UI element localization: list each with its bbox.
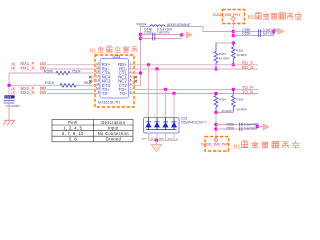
junction dot bbox=[7, 84, 10, 87]
wire bottom power vertical bbox=[215, 113, 217, 138]
resistor R352 bbox=[232, 43, 236, 65]
D23 anode bus bbox=[146, 129, 177, 131]
svg-text:1nF/2000V: 1nF/2000V bbox=[6, 104, 21, 108]
ferrite bead FB34 bbox=[150, 25, 165, 27]
svg-text:Description: Description bbox=[101, 120, 125, 125]
svg-text:R300: R300 bbox=[44, 70, 53, 74]
svg-text:Ground: Ground bbox=[106, 137, 122, 142]
diode D23-a bbox=[146, 118, 151, 130]
junction dots on CT vertical bbox=[139, 33, 142, 36]
junction dot bbox=[256, 125, 259, 128]
no-connect X pin5 bbox=[134, 80, 137, 83]
wire C463 to chassis bbox=[8, 103, 10, 120]
node CT3 bob-smith wire bbox=[9, 84, 100, 86]
U33 pin numbers right bbox=[130, 61, 132, 94]
svg-text:49.9R/F: 49.9R/F bbox=[236, 108, 247, 112]
D23 bottom pin stubs bbox=[149, 133, 175, 140]
svg-text:C559: C559 bbox=[242, 31, 250, 35]
svg-text:R355: R355 bbox=[236, 97, 244, 101]
svg-text:49.9R/F: 49.9R/F bbox=[236, 53, 247, 57]
wire FB to power node bbox=[203, 27, 233, 32]
svg-text:Input: Input bbox=[108, 126, 119, 131]
svg-text:[4]: [4] bbox=[12, 91, 16, 95]
capacitor C559 bbox=[240, 127, 242, 131]
wire MX1_P bbox=[47, 64, 100, 66]
svg-text:R354: R354 bbox=[219, 97, 227, 101]
svg-text:D5V0F4U10LP-7: D5V0F4U10LP-7 bbox=[181, 121, 207, 125]
svg-text:6, 7, 9, 12: 6, 7, 9, 12 bbox=[62, 131, 84, 136]
resistor R319 bbox=[60, 84, 76, 88]
wire D23 pin1 riser bbox=[148, 65, 150, 118]
svg-text:SH1615CTD: SH1615CTD bbox=[98, 100, 121, 105]
svg-text:Pin#: Pin# bbox=[68, 120, 78, 125]
svg-text:MX1_N: MX1_N bbox=[21, 66, 35, 71]
resistor R354 bbox=[214, 94, 218, 113]
svg-text:49.9R/F: 49.9R/F bbox=[219, 57, 230, 61]
svg-text:1uF/10V: 1uF/10V bbox=[244, 126, 257, 130]
svg-text:TO_N: TO_N bbox=[242, 90, 253, 95]
wire vertical to C463 bbox=[8, 73, 10, 100]
U33 left pin stubs bbox=[92, 65, 100, 94]
capacitor C556 bbox=[258, 29, 260, 33]
svg-text:75UF: 75UF bbox=[72, 70, 82, 74]
D23 pin numbers bbox=[146, 115, 174, 117]
wire cap pair right bbox=[233, 31, 274, 35]
no-connect X pin13 bbox=[89, 76, 92, 79]
capacitor C463 bbox=[4, 101, 15, 103]
wire MX2_P bbox=[47, 88, 100, 90]
resistor R353 bbox=[214, 43, 218, 69]
off-page arrow right pair bbox=[274, 30, 278, 32]
resistor R355 bbox=[232, 89, 236, 112]
chassis ground bbox=[3, 120, 15, 125]
svg-text:RD_N: RD_N bbox=[242, 65, 253, 70]
svg-text:600/100MHZ: 600/100MHZ bbox=[167, 22, 191, 27]
svg-text:TO-: TO- bbox=[119, 91, 127, 96]
svg-text:R352: R352 bbox=[236, 48, 244, 52]
svg-text:[4]: [4] bbox=[12, 67, 16, 71]
svg-text:TX-: TX- bbox=[102, 91, 109, 96]
svg-text:R353: R353 bbox=[219, 52, 227, 56]
table pin description bbox=[52, 119, 133, 141]
off-page arrow left pair bbox=[182, 34, 187, 36]
wire RD_P bbox=[134, 64, 258, 66]
wire D23 pin7 riser bbox=[173, 94, 175, 118]
svg-text:No Connection: No Connection bbox=[98, 131, 129, 136]
svg-text:DVDD_3V8_PHY: DVDD_3V8_PHY bbox=[201, 143, 230, 147]
svg-text:MX2_N: MX2_N bbox=[21, 90, 35, 95]
capacitor C558 bbox=[240, 123, 242, 127]
D23 bottom pin labels bbox=[142, 138, 178, 140]
diode D23-c bbox=[163, 118, 168, 130]
junction dots RD bbox=[147, 63, 150, 66]
U33 right pin stubs bbox=[129, 65, 135, 94]
chassis arrow below D23 bbox=[156, 140, 158, 144]
no-connect X pin4 bbox=[134, 76, 137, 79]
highlight box transformer bbox=[95, 55, 134, 107]
highlight box power top bbox=[223, 10, 245, 24]
capacitor C448 bbox=[153, 33, 155, 37]
svg-text:B1: B1 bbox=[234, 144, 241, 150]
wire MX1_N bbox=[47, 68, 100, 70]
junction dots TO bbox=[164, 88, 167, 91]
diode D23-b bbox=[155, 118, 160, 130]
node CT4 bob-smith wire bbox=[9, 72, 100, 74]
U33 pin names left bbox=[102, 62, 111, 96]
svg-text:C550: C550 bbox=[144, 30, 152, 34]
power symbol top bbox=[231, 16, 235, 21]
svg-text:75UF: 75UF bbox=[83, 81, 93, 85]
svg-text:C463: C463 bbox=[5, 96, 12, 99]
svg-text:1, 2, 4, 5: 1, 2, 4, 5 bbox=[63, 126, 82, 131]
svg-text:1uF/10V: 1uF/10V bbox=[157, 30, 170, 34]
junction dots power node bbox=[232, 30, 235, 33]
wire resistor bottoms rail bbox=[216, 112, 233, 114]
wire cap pair bottom bbox=[216, 125, 257, 130]
wire MX2_N bbox=[47, 93, 100, 95]
highlight box power bottom bbox=[205, 137, 229, 151]
wire RD_N bbox=[134, 68, 258, 70]
U33 pin names right bbox=[118, 62, 127, 96]
junction dot bbox=[272, 30, 275, 33]
capacitor C557 bbox=[258, 33, 260, 37]
power symbol bottom bbox=[214, 138, 218, 143]
capacitor C550 bbox=[153, 37, 155, 41]
svg-text:MDIP: MDIP bbox=[142, 138, 147, 140]
wire D23 pin5 riser bbox=[165, 89, 167, 117]
wire D23 pin3 riser bbox=[156, 69, 158, 118]
svg-text:R319: R319 bbox=[45, 81, 54, 85]
svg-text:C559: C559 bbox=[226, 126, 234, 130]
wire cap pair left bbox=[141, 35, 182, 39]
svg-text:B1: B1 bbox=[90, 49, 96, 55]
resistor R300 bbox=[56, 71, 70, 75]
svg-text:FB34: FB34 bbox=[137, 21, 147, 26]
wire pull-up rail bbox=[216, 42, 233, 44]
wire FB rail bbox=[141, 26, 204, 28]
no-connect X pin12 bbox=[89, 80, 92, 83]
off-page arrow bottom pair bbox=[257, 126, 263, 128]
wire center-tap vertical CT1/CT2 bbox=[134, 27, 141, 86]
junction dot bbox=[180, 33, 183, 36]
svg-text:B1: B1 bbox=[248, 15, 254, 21]
TVS array D23 bbox=[144, 118, 180, 134]
U33 pin numbers left bbox=[96, 61, 100, 94]
diode D23-d bbox=[172, 118, 177, 130]
svg-text:3, 8: 3, 8 bbox=[69, 137, 77, 142]
wire TO_P bbox=[134, 88, 258, 90]
wire TO_N bbox=[134, 93, 258, 95]
svg-text:DVDD_3V8_PHY: DVDD_3V8_PHY bbox=[213, 13, 242, 17]
junction dot bbox=[155, 139, 158, 142]
wire D23 ground rail bbox=[149, 139, 179, 141]
